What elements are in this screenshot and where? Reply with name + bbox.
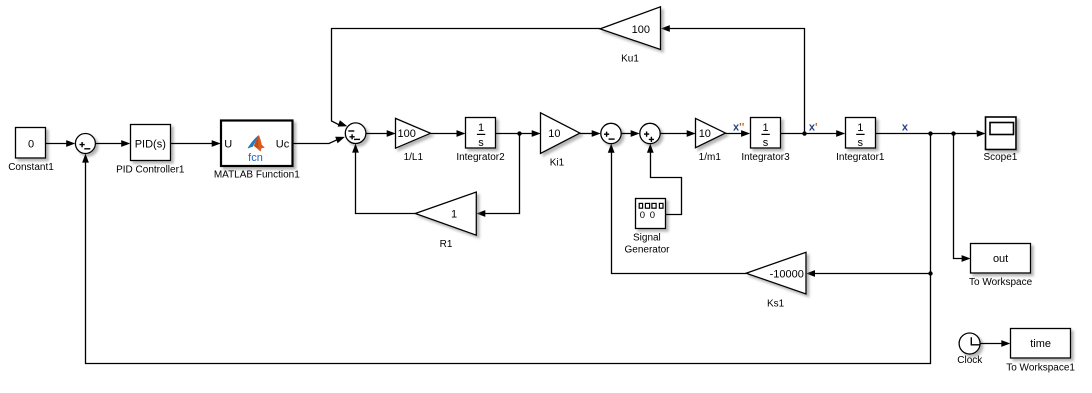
svg-text:s: s: [858, 137, 864, 149]
integrator block Integrator2: [466, 118, 496, 150]
svg-text:time: time: [1030, 338, 1051, 350]
PID controller block PID Controller1: [131, 125, 171, 161]
MATLAB membrane logo: [248, 136, 264, 151]
svg-text:PID Controller1: PID Controller1: [116, 165, 185, 176]
sum junction Sum3: [601, 123, 621, 143]
svg-text:Generator: Generator: [624, 244, 670, 255]
wire Ks1 output to Sum3 bottom: [608, 144, 746, 274]
svg-text:U: U: [224, 138, 232, 150]
svg-text:fcn: fcn: [248, 152, 263, 164]
svg-text:10: 10: [699, 128, 711, 140]
svg-text:Ku1: Ku1: [621, 53, 639, 64]
wire out branch down to To Workspace: [954, 134, 971, 262]
gain block R1: [415, 192, 476, 235]
svg-text:Integrator3: Integrator3: [741, 152, 790, 163]
junction node to out branch: [951, 131, 955, 135]
wire Ks1 feedback branch down: [806, 134, 931, 277]
svg-text:out: out: [993, 253, 1008, 265]
svg-text:1: 1: [451, 208, 457, 220]
svg-text:Ks1: Ks1: [767, 298, 785, 309]
svg-text:Integrator1: Integrator1: [836, 152, 885, 163]
gain block Ku1: [600, 7, 661, 50]
svg-text:Scope1: Scope1: [983, 152, 1017, 163]
svg-text:1/m1: 1/m1: [699, 152, 722, 163]
svg-text:1/L1: 1/L1: [404, 152, 424, 163]
gain block Ki1: [541, 113, 580, 154]
svg-text:100: 100: [632, 24, 650, 36]
svg-text:-10000: -10000: [770, 268, 804, 280]
svg-text:Integrator2: Integrator2: [456, 152, 505, 163]
wire junction up to Ku1 input: [661, 25, 805, 134]
svg-text:To Workspace: To Workspace: [969, 277, 1033, 288]
wire Sum3 to Sum4: [621, 130, 640, 137]
svg-text:Ki1: Ki1: [550, 157, 565, 168]
wire Sum1 to PID Controller1: [95, 140, 130, 147]
wire 1/m1 to Integrator3: [726, 130, 751, 137]
svg-text:10: 10: [548, 128, 560, 140]
wire outer position feedback loop to Sum1 bottom: [82, 154, 930, 364]
wire Constant1 to Sum1: [46, 140, 75, 147]
sum junction Sum2: [345, 123, 366, 144]
svg-text:Signal: Signal: [633, 232, 661, 243]
svg-text:MATLAB Function1: MATLAB Function1: [214, 170, 300, 181]
svg-text:1: 1: [762, 122, 768, 134]
svg-text:1: 1: [478, 122, 484, 134]
gain block Ks1: [746, 252, 806, 294]
wire R1 feedback branch down: [476, 134, 519, 217]
wire Integrator3 to Integrator1: [781, 130, 845, 137]
svg-text:0 0: 0 0: [640, 210, 656, 221]
wire Signal Generator to Sum4 bottom: [647, 144, 682, 215]
svg-text:0: 0: [28, 139, 34, 151]
wire PID Controller1 to MATLAB Function1: [170, 140, 220, 147]
svg-text:To Workspace1: To Workspace1: [1006, 362, 1075, 373]
sum junction Sum4: [640, 123, 660, 143]
wire 1/L1 to Integrator2: [431, 130, 466, 137]
wire Ku1 output to Sum2: [332, 29, 601, 127]
junction node on x wire (to Ku1 loop): [802, 131, 806, 135]
svg-text:s: s: [763, 137, 769, 149]
svg-text:Uc: Uc: [276, 138, 290, 150]
scope block Scope1: [986, 117, 1017, 150]
integrator block Integrator3: [751, 118, 781, 150]
svg-text:x: x: [902, 121, 909, 133]
junction node on Integrator2 output (to R1 loop): [517, 131, 521, 135]
to-workspace block out: [971, 244, 1031, 274]
MATLAB Function block MATLAB Function1: [221, 121, 293, 167]
junction node to Ks1 feedback: [928, 131, 932, 135]
clock block Clock: [959, 333, 980, 354]
wire Integrator2 to Ki1: [496, 130, 541, 137]
wire R1 output to Sum2 bottom: [352, 144, 415, 214]
svg-text:PID(s): PID(s): [135, 138, 166, 150]
integrator block Integrator1: [846, 118, 876, 150]
svg-text:1: 1: [857, 122, 863, 134]
wire Ki1 to Sum3: [580, 130, 601, 137]
wire Clock to To Workspace1: [980, 340, 1010, 347]
wire Integrator1 to Scope1: [876, 130, 986, 137]
constant block Constant1: [16, 128, 46, 159]
sum junction Sum1: [75, 134, 95, 154]
to-workspace block time: [1011, 329, 1071, 359]
signal generator block Signal Generator: [636, 199, 666, 229]
svg-text:Constant1: Constant1: [8, 162, 54, 173]
gain block 1/m1: [696, 118, 726, 147]
svg-text:Clock: Clock: [957, 355, 983, 366]
wire Sum2 to gain 1/L1: [366, 130, 396, 137]
svg-text:s: s: [478, 137, 484, 149]
svg-text:100: 100: [398, 128, 416, 140]
gain block 1/L1: [396, 118, 431, 148]
wire Sum4 to gain 1/m1: [660, 130, 696, 137]
junction node Ks1 line to outer loop: [928, 271, 932, 275]
svg-text:R1: R1: [440, 239, 453, 250]
svg-text:x': x': [809, 121, 818, 133]
wire MATLAB Function1 to Sum2: [293, 137, 345, 144]
